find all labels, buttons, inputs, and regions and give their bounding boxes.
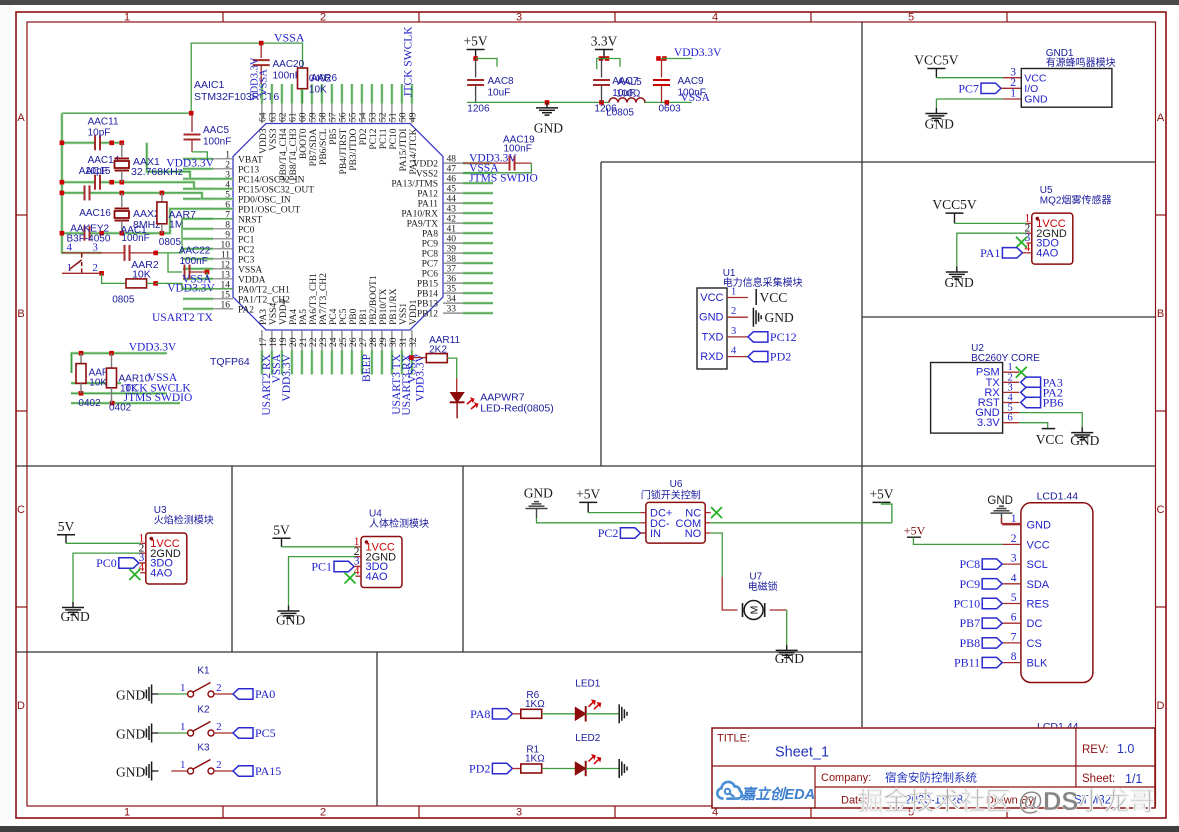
svg-text:58: 58 (318, 112, 328, 122)
svg-text:11: 11 (221, 250, 230, 260)
svg-text:43: 43 (447, 205, 457, 215)
capacitor AAC19 100nF (463, 135, 535, 173)
svg-text:TITLE:: TITLE: (717, 733, 750, 745)
svg-text:19: 19 (279, 337, 289, 347)
svg-text:PD2: PD2 (359, 128, 369, 145)
wire U6 NO to U7 (711, 533, 738, 610)
LED LED1 with resistor R6 (470, 678, 627, 723)
capacitor AAC11 10pF (88, 117, 119, 151)
svg-text:61: 61 (288, 112, 298, 122)
svg-text:38: 38 (447, 255, 457, 265)
svg-text:0402: 0402 (78, 398, 101, 409)
ground GND U7 (775, 645, 804, 666)
node PC12 flag (748, 330, 797, 344)
svg-text:PC11: PC11 (379, 128, 389, 149)
svg-text:PA15: PA15 (255, 764, 281, 778)
node JTMS SWDIO label (124, 392, 193, 404)
svg-text:PA4: PA4 (289, 309, 299, 325)
svg-text:54: 54 (358, 112, 368, 122)
svg-text:39: 39 (447, 245, 457, 255)
svg-text:GND: GND (987, 495, 1013, 507)
svg-text:VDD3.3V: VDD3.3V (129, 342, 177, 354)
svg-text:嘉立创EDA: 嘉立创EDA (740, 786, 815, 803)
watermark (858, 787, 1155, 816)
divider horizontal y=652 (16, 651, 862, 653)
svg-text:20: 20 (289, 337, 299, 347)
svg-text:9: 9 (225, 230, 230, 240)
svg-text:64: 64 (258, 112, 268, 122)
module U6 door lock control box (640, 479, 710, 543)
svg-text:VCC5V: VCC5V (914, 53, 959, 68)
svg-text:VSSA: VSSA (274, 31, 305, 45)
svg-text:PB12: PB12 (417, 310, 438, 320)
svg-text:4: 4 (712, 12, 718, 24)
svg-text:100nF: 100nF (121, 233, 149, 244)
node PA3 flag (1021, 375, 1063, 389)
svg-text:PC8: PC8 (422, 250, 439, 260)
divider horizontal y=466 (16, 465, 1155, 467)
svg-text:电磁锁: 电磁锁 (748, 580, 778, 593)
svg-text:PC8: PC8 (960, 557, 981, 571)
power +5V right (869, 486, 893, 522)
module U2 BC260Y CORE box (931, 343, 1041, 433)
capacitor AAC22 100nF (168, 246, 211, 280)
svg-text:AAC16: AAC16 (79, 208, 111, 219)
svg-text:NRST: NRST (238, 215, 262, 225)
svg-text:PC2: PC2 (238, 245, 255, 255)
svg-text:GND: GND (699, 312, 724, 324)
svg-text:D: D (17, 700, 25, 712)
power VCC5V buzzer (914, 53, 959, 78)
svg-text:3: 3 (1011, 553, 1017, 565)
svg-text:A: A (1157, 112, 1165, 124)
resistor AAR7 1M (157, 193, 196, 248)
svg-text:57: 57 (328, 112, 338, 122)
svg-text:AAC5: AAC5 (203, 125, 230, 136)
module LCD1.44 display box (1021, 491, 1093, 734)
svg-text:2K2: 2K2 (429, 345, 447, 356)
svg-text:PA8: PA8 (470, 707, 490, 721)
node JTMS SWDIO pin46 (469, 173, 538, 185)
svg-text:MQ2烟雾传感器: MQ2烟雾传感器 (1040, 194, 1112, 207)
svg-text:PA13/JTMS: PA13/JTMS (391, 180, 438, 190)
svg-text:7: 7 (1011, 631, 1017, 643)
svg-text:BLK: BLK (1027, 658, 1048, 670)
svg-text:2: 2 (225, 160, 230, 170)
svg-text:33: 33 (447, 305, 457, 315)
svg-text:50: 50 (398, 112, 408, 122)
inductor AAL5 (609, 98, 645, 103)
svg-text:VSS3: VSS3 (269, 128, 279, 150)
wire U7 to gnd (770, 610, 787, 645)
svg-text:LED-Red(0805): LED-Red(0805) (480, 403, 554, 415)
wire U6 COM to +5V (711, 522, 892, 524)
svg-text:PB9/T4_CH4: PB9/T4_CH4 (279, 128, 289, 181)
svg-text:1: 1 (180, 721, 186, 733)
svg-text:+5V: +5V (869, 486, 893, 501)
LED AAPWR7 LED-Red(0805) (450, 392, 554, 419)
svg-text:PB8: PB8 (960, 636, 981, 650)
svg-text:B: B (17, 308, 24, 320)
svg-text:5V: 5V (273, 522, 290, 537)
svg-text:宿舍安防控制系统: 宿舍安防控制系统 (885, 771, 977, 785)
svg-text:掘金技术社区 @DS小龙哥: 掘金技术社区 @DS小龙哥 (858, 787, 1155, 816)
svg-text:2: 2 (92, 262, 98, 274)
svg-text:PB8/T4_CH3: PB8/T4_CH3 (289, 128, 299, 181)
svg-text:PB15: PB15 (417, 280, 438, 290)
svg-text:24: 24 (329, 337, 339, 347)
svg-text:4AO: 4AO (150, 567, 172, 579)
svg-text:10pF: 10pF (85, 166, 108, 177)
svg-text:BC260Y CORE: BC260Y CORE (971, 353, 1040, 364)
svg-text:47: 47 (447, 165, 457, 175)
svg-text:火焰检测模块: 火焰检测模块 (154, 514, 214, 527)
wire crystal rails (60, 113, 233, 253)
svg-text:AAC11: AAC11 (88, 117, 119, 128)
svg-text:C: C (17, 504, 25, 516)
resistor AAR6 10K BOOT0 pulldown (298, 68, 338, 104)
svg-text:1KΩ: 1KΩ (525, 754, 545, 765)
capacitor AAC16 (79, 185, 111, 219)
svg-text:10K: 10K (89, 378, 107, 389)
svg-text:AAL5: AAL5 (617, 77, 642, 88)
svg-text:SDA: SDA (1027, 579, 1050, 591)
svg-text:2: 2 (320, 12, 326, 24)
svg-text:VSS2: VSS2 (416, 170, 438, 180)
svg-text:10: 10 (221, 240, 231, 250)
svg-text:PD1/OSC_OUT: PD1/OSC_OUT (238, 205, 300, 215)
power 3.3V symbol (591, 34, 620, 70)
svg-text:PB3/JTDO: PB3/JTDO (349, 128, 359, 170)
ground GND U2 (1070, 427, 1099, 448)
svg-text:GND: GND (1027, 520, 1052, 532)
svg-text:1: 1 (180, 682, 186, 694)
svg-text:VCC: VCC (760, 290, 788, 305)
svg-text:IN: IN (650, 528, 661, 540)
svg-text:PC5: PC5 (255, 726, 276, 740)
divider horizontal y=317 (862, 316, 1155, 318)
svg-text:L0805: L0805 (606, 108, 634, 119)
svg-text:56: 56 (338, 112, 348, 122)
svg-text:PA11: PA11 (418, 200, 439, 210)
svg-text:+5V: +5V (576, 486, 600, 501)
capacitor AAC20 100nF (250, 43, 305, 101)
svg-text:PA1: PA1 (980, 246, 1000, 260)
power VCC5V U5 (932, 197, 977, 223)
svg-text:52: 52 (378, 112, 388, 122)
node VDD3.3V label swd (129, 342, 177, 354)
svg-text:PA14/JTCK: PA14/JTCK (409, 128, 419, 174)
svg-text:U3: U3 (154, 505, 167, 516)
svg-text:PC0: PC0 (96, 556, 117, 570)
svg-text:GND: GND (1070, 433, 1099, 448)
svg-text:59: 59 (308, 112, 318, 122)
svg-text:AAR6: AAR6 (311, 73, 338, 84)
divider vertical x=377 (376, 652, 378, 806)
svg-text:U6: U6 (670, 479, 683, 490)
svg-text:VDD3: VDD3 (259, 128, 269, 154)
svg-text:4: 4 (731, 346, 737, 357)
svg-text:+5V: +5V (904, 524, 926, 538)
svg-text:SCL: SCL (1027, 559, 1048, 571)
svg-text:A: A (17, 112, 25, 124)
svg-text:3.3V: 3.3V (977, 417, 1000, 429)
svg-text:13: 13 (221, 270, 231, 280)
svg-text:AAC22: AAC22 (179, 246, 211, 257)
svg-text:GND: GND (116, 765, 145, 780)
svg-text:JTMS SWDIO: JTMS SWDIO (469, 173, 538, 185)
svg-text:有源蜂鸣器模块: 有源蜂鸣器模块 (1046, 56, 1116, 69)
svg-text:BEEP: BEEP (361, 354, 373, 382)
power VCC U2 (1019, 423, 1063, 447)
svg-text:1: 1 (180, 759, 186, 771)
capacitor AAC7 10uF (593, 59, 642, 119)
svg-text:PC0: PC0 (238, 225, 255, 235)
svg-text:VDD1: VDD1 (409, 299, 419, 325)
switch K1 (116, 666, 275, 704)
svg-text:DC: DC (1027, 618, 1043, 630)
wire VSSA top rail (191, 31, 305, 114)
svg-text:21: 21 (299, 337, 309, 347)
resistor AAR11 2K2 (409, 335, 460, 393)
svg-text:32.768KHz: 32.768KHz (131, 166, 183, 178)
svg-text:5V: 5V (58, 519, 75, 534)
node PA2 flag (1021, 385, 1063, 399)
svg-text:12: 12 (221, 260, 231, 270)
svg-text:10pF: 10pF (88, 128, 111, 139)
svg-text:GND: GND (524, 486, 553, 501)
svg-text:PC7: PC7 (958, 81, 979, 95)
svg-text:VDD4: VDD4 (279, 299, 289, 325)
node PD2 flag (748, 350, 791, 364)
svg-text:2: 2 (216, 682, 222, 694)
svg-text:100nF: 100nF (180, 256, 208, 267)
svg-text:4AO: 4AO (1036, 248, 1058, 260)
svg-text:1: 1 (1010, 88, 1016, 100)
svg-text:U5: U5 (1040, 185, 1053, 196)
svg-text:GND: GND (61, 609, 90, 624)
svg-text:VDD3.3V: VDD3.3V (281, 353, 293, 401)
svg-text:3: 3 (731, 326, 736, 337)
node PB6 flag (1021, 396, 1064, 410)
svg-text:U4: U4 (369, 509, 382, 520)
svg-text:GND: GND (945, 275, 974, 290)
node X mark U6 NC (711, 507, 722, 518)
svg-text:10K: 10K (309, 85, 327, 96)
capacitor AAC1 100nF (121, 225, 150, 261)
wire GND rail (467, 100, 692, 105)
LED LED2 with resistor R1 (469, 733, 627, 778)
svg-text:32: 32 (409, 337, 419, 347)
svg-text:62: 62 (278, 112, 288, 122)
MCU pins and pin labels (183, 84, 493, 375)
svg-text:人体检测模块: 人体检测模块 (369, 517, 429, 530)
ground GND buzzer (925, 99, 954, 132)
svg-text:PB7: PB7 (960, 616, 981, 630)
node VSSA label swd (148, 372, 178, 384)
capacitor AAC14 (88, 155, 120, 190)
svg-text:CS: CS (1027, 638, 1042, 650)
capacitor AAC18 (85, 226, 90, 241)
svg-text:2: 2 (1011, 533, 1017, 545)
svg-text:D: D (1157, 700, 1165, 712)
svg-text:3: 3 (516, 12, 522, 24)
svg-text:41: 41 (447, 225, 457, 235)
svg-text:63: 63 (268, 112, 278, 122)
node PC7 flag (958, 81, 1021, 95)
svg-text:PC9: PC9 (960, 577, 981, 591)
U1 pins (699, 287, 748, 364)
svg-text:PB10/TX: PB10/TX (379, 288, 389, 325)
svg-text:AAIC1: AAIC1 (194, 79, 225, 91)
svg-text:6: 6 (1008, 413, 1013, 424)
svg-text:GND: GND (1024, 94, 1048, 106)
ground GND U6 (524, 486, 641, 523)
svg-text:PC9: PC9 (422, 240, 439, 250)
svg-text:PC15/OSC32_OUT: PC15/OSC32_OUT (238, 185, 314, 195)
resistor AAR2 10K (102, 259, 233, 306)
LCD pins (1002, 513, 1051, 669)
svg-text:23: 23 (319, 337, 329, 347)
svg-text:PC6: PC6 (422, 270, 439, 280)
svg-text:PA3: PA3 (259, 309, 269, 325)
svg-text:1: 1 (124, 12, 130, 24)
svg-text:LED1: LED1 (575, 678, 600, 689)
crystal AAX2 8MHz (115, 193, 161, 233)
svg-text:0603: 0603 (659, 104, 682, 115)
svg-text:PA6/T3_CH1: PA6/T3_CH1 (309, 273, 319, 325)
svg-text:VSSA: VSSA (259, 69, 270, 96)
svg-text:27: 27 (359, 337, 369, 347)
svg-text:VSSA: VSSA (238, 265, 262, 275)
svg-text:4: 4 (1011, 572, 1017, 584)
svg-text:1: 1 (225, 150, 230, 160)
svg-text:PA12: PA12 (417, 190, 438, 200)
svg-text:PB7/SDA: PB7/SDA (309, 128, 319, 166)
svg-text:3.3V: 3.3V (591, 34, 618, 49)
svg-text:1: 1 (731, 287, 736, 298)
svg-text:PB14: PB14 (417, 290, 438, 300)
svg-text:1: 1 (124, 807, 130, 819)
svg-text:100nF: 100nF (203, 137, 231, 148)
U2 pins (975, 362, 1019, 429)
svg-text:48: 48 (447, 155, 457, 165)
svg-text:44: 44 (447, 195, 457, 205)
svg-text:28: 28 (369, 337, 379, 347)
svg-text:PB2/BOOT1: PB2/BOOT1 (369, 275, 379, 325)
svg-text:45: 45 (447, 185, 457, 195)
svg-text:100nF: 100nF (273, 70, 301, 81)
svg-text:3: 3 (516, 807, 522, 819)
svg-text:PD2: PD2 (469, 762, 490, 776)
divider vertical x=601 (600, 162, 602, 466)
svg-text:GND: GND (925, 117, 954, 132)
svg-text:46: 46 (447, 175, 457, 185)
svg-text:B: B (1157, 308, 1164, 320)
node X mark U2 pin1 (1016, 367, 1027, 378)
svg-text:5: 5 (1011, 592, 1017, 604)
node VSSA label rail (681, 92, 711, 104)
module U3 flame detect (57, 505, 214, 624)
svg-text:+5V: +5V (464, 34, 488, 49)
svg-text:PB5: PB5 (329, 128, 339, 145)
svg-text:1206: 1206 (467, 104, 490, 115)
svg-text:VSS4: VSS4 (269, 303, 279, 325)
svg-text:JTMS SWDIO: JTMS SWDIO (124, 392, 193, 404)
svg-text:PD0/OSC_IN: PD0/OSC_IN (238, 195, 291, 205)
svg-text:PA10/RX: PA10/RX (401, 210, 438, 220)
svg-text:26: 26 (349, 337, 359, 347)
svg-text:Sheet_1: Sheet_1 (775, 745, 829, 761)
svg-text:PC13: PC13 (238, 165, 259, 175)
svg-text:NO: NO (685, 528, 702, 540)
ground GND rail symbol (534, 102, 563, 135)
capacitor AAC8 10uF (467, 59, 514, 115)
svg-text:PD2: PD2 (770, 350, 791, 364)
svg-text:AAC8: AAC8 (488, 76, 515, 87)
svg-text:TQFP64: TQFP64 (210, 356, 250, 368)
svg-text:PA0: PA0 (255, 687, 275, 701)
svg-text:U7: U7 (749, 572, 762, 583)
node USART2 TX label (152, 312, 213, 324)
svg-text:18: 18 (269, 337, 279, 347)
svg-text:PC2: PC2 (598, 526, 619, 540)
svg-text:PA8: PA8 (422, 230, 438, 240)
divider vertical x=463 (462, 466, 464, 652)
svg-text:VBAT: VBAT (238, 155, 263, 165)
svg-text:31: 31 (399, 337, 409, 347)
svg-text:GND: GND (765, 310, 794, 325)
svg-text:60: 60 (298, 112, 308, 122)
module U1 power info collector box (697, 268, 803, 369)
svg-text:37: 37 (447, 265, 457, 275)
svg-text:51: 51 (388, 112, 398, 122)
svg-text:6: 6 (1011, 612, 1017, 624)
svg-text:PB6/SCL: PB6/SCL (319, 128, 329, 165)
node VDD3.3V label pin1 (166, 158, 214, 170)
svg-text:GND: GND (116, 688, 145, 703)
ground GND U1 (753, 308, 794, 327)
svg-text:17: 17 (259, 337, 269, 347)
svg-text:36: 36 (447, 275, 457, 285)
svg-text:PC12: PC12 (770, 330, 797, 344)
power +5V symbol (464, 34, 497, 67)
node PA1 flag (980, 246, 1026, 260)
ground GND U5 (945, 267, 974, 291)
svg-text:PB1: PB1 (359, 308, 369, 325)
svg-text:PC3: PC3 (238, 255, 255, 265)
svg-text:PB13: PB13 (417, 300, 438, 310)
svg-text:16: 16 (221, 300, 231, 310)
crystal AAX1 32.768KHz (115, 143, 183, 182)
divider vertical x=862 (861, 22, 863, 727)
svg-text:5: 5 (908, 12, 914, 24)
svg-text:2: 2 (320, 807, 326, 819)
svg-text:PC5: PC5 (339, 308, 349, 325)
wire U5 pin2 (957, 233, 1027, 266)
svg-text:34: 34 (447, 295, 457, 305)
svg-text:LED2: LED2 (575, 733, 600, 744)
svg-text:15: 15 (221, 290, 231, 300)
svg-text:49: 49 (408, 112, 418, 122)
svg-text:VCC5V: VCC5V (932, 197, 977, 212)
wire buzzer gnd (936, 98, 1021, 100)
svg-text:USART2 TX: USART2 TX (152, 312, 213, 324)
svg-text:LCD1.44: LCD1.44 (1037, 491, 1079, 503)
svg-text:PC4: PC4 (329, 308, 339, 325)
svg-text:PA2: PA2 (238, 305, 254, 315)
node rotated net labels at MCU bottom/top (261, 26, 427, 416)
